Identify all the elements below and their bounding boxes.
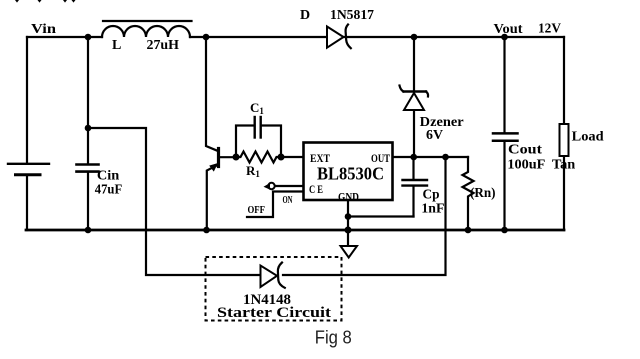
svg-text:47uF: 47uF — [95, 182, 122, 197]
svg-text:Fig 8: Fig 8 — [315, 328, 352, 348]
svg-text:27uH: 27uH — [147, 38, 180, 53]
svg-text:1N5817: 1N5817 — [330, 8, 374, 23]
svg-text:Vin: Vin — [31, 22, 56, 37]
svg-text:OFF: OFF — [248, 205, 266, 216]
svg-text:100uF: 100uF — [507, 156, 545, 171]
svg-text:Cp: Cp — [423, 187, 440, 202]
svg-text:Cin: Cin — [97, 168, 120, 183]
svg-text:R1: R1 — [246, 163, 260, 179]
svg-text:L: L — [112, 38, 121, 53]
svg-text:Tan: Tan — [552, 156, 576, 171]
svg-text:C E: C E — [309, 182, 323, 196]
svg-text:12V: 12V — [538, 22, 561, 37]
svg-text:6V: 6V — [426, 127, 443, 142]
svg-text:Vout: Vout — [494, 22, 523, 37]
svg-text:C1: C1 — [250, 100, 264, 116]
svg-text:1nF: 1nF — [421, 201, 444, 216]
svg-text:BL8530C: BL8530C — [317, 164, 384, 184]
svg-text:D: D — [300, 8, 310, 23]
svg-text:ON: ON — [283, 195, 293, 206]
svg-text:GND: GND — [338, 190, 359, 204]
svg-text:(Rn): (Rn) — [470, 185, 496, 200]
svg-text:Starter Circuit: Starter Circuit — [217, 305, 331, 321]
svg-text:Cout: Cout — [508, 141, 543, 156]
svg-text:Load: Load — [572, 129, 605, 144]
